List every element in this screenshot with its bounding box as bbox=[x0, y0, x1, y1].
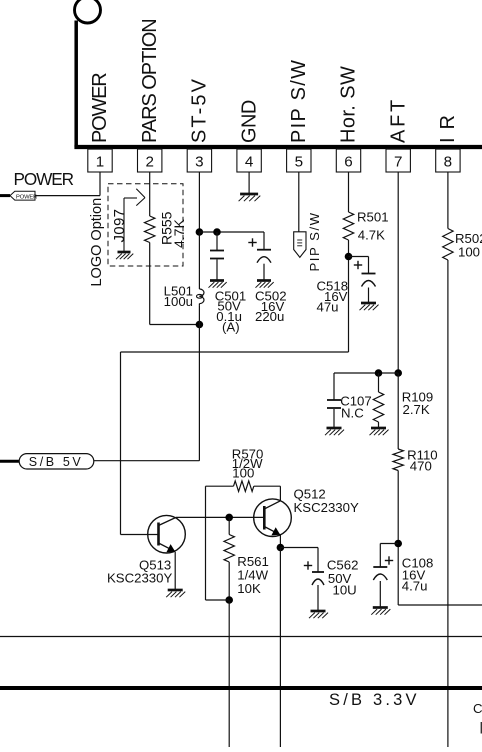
svg-text:S/B 3.3V: S/B 3.3V bbox=[329, 691, 420, 709]
svg-text:100: 100 bbox=[232, 466, 254, 481]
svg-text:4.7K: 4.7K bbox=[358, 228, 385, 243]
svg-text:47u: 47u bbox=[317, 299, 339, 314]
svg-text:2.7K: 2.7K bbox=[403, 402, 430, 417]
svg-text:4.7K: 4.7K bbox=[171, 219, 187, 248]
svg-text:PIP S/W: PIP S/W bbox=[288, 59, 310, 143]
svg-text:4: 4 bbox=[245, 154, 253, 171]
svg-text:1: 1 bbox=[96, 154, 104, 171]
svg-text:KSC2330Y: KSC2330Y bbox=[294, 500, 359, 515]
svg-text:POWER: POWER bbox=[14, 169, 74, 189]
svg-text:GND: GND bbox=[238, 100, 260, 143]
svg-text:3: 3 bbox=[195, 154, 203, 171]
svg-text:KSC2330Y: KSC2330Y bbox=[107, 571, 172, 586]
svg-text:10U: 10U bbox=[333, 583, 357, 598]
svg-text:220u: 220u bbox=[255, 309, 284, 324]
svg-text:8: 8 bbox=[444, 154, 452, 171]
svg-text:10K: 10K bbox=[237, 581, 261, 596]
svg-text:Hor. SW: Hor. SW bbox=[338, 66, 360, 143]
svg-text:ST-5V: ST-5V bbox=[189, 77, 211, 143]
svg-text:PIP S/W: PIP S/W bbox=[307, 211, 322, 271]
svg-text:S/B 5V: S/B 5V bbox=[29, 455, 84, 469]
svg-text:POWER: POWER bbox=[16, 194, 37, 200]
svg-text:PARS OPTION: PARS OPTION bbox=[139, 19, 161, 143]
svg-text:4.7u: 4.7u bbox=[402, 579, 428, 594]
svg-text:5: 5 bbox=[295, 154, 303, 171]
svg-text:100: 100 bbox=[458, 245, 480, 260]
svg-text:(A): (A) bbox=[222, 320, 240, 335]
svg-text:N.C: N.C bbox=[341, 405, 364, 420]
svg-text:2: 2 bbox=[145, 154, 153, 171]
svg-text:470: 470 bbox=[410, 458, 432, 473]
svg-text:C: C bbox=[473, 701, 482, 716]
svg-text:LOGO Option: LOGO Option bbox=[89, 198, 105, 287]
svg-text:R501: R501 bbox=[357, 210, 389, 225]
svg-text:100u: 100u bbox=[164, 294, 193, 309]
svg-text:7: 7 bbox=[394, 154, 402, 171]
svg-text:AFT: AFT bbox=[387, 97, 409, 143]
svg-text:POWER: POWER bbox=[89, 73, 111, 143]
svg-text:6: 6 bbox=[344, 154, 352, 171]
svg-text:IR: IR bbox=[437, 107, 459, 143]
svg-text:J097: J097 bbox=[111, 209, 128, 243]
